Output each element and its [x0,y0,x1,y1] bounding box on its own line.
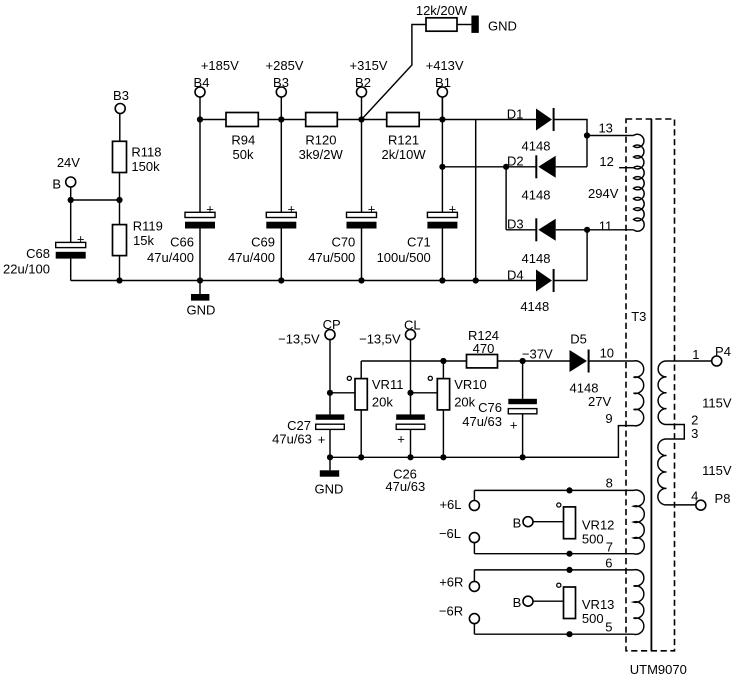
node B2 +315V [357,87,367,97]
wire D2 anode to pin13 branch [556,166,587,168]
svg-text:−13,5V: −13,5V [359,332,401,347]
svg-text:+: + [510,418,518,433]
svg-text:CL: CL [404,318,421,333]
svg-text:24V: 24V [57,155,80,170]
svg-text:UTM9070: UTM9070 [630,662,687,677]
node B VR13 [523,596,533,606]
svg-text:2k/10W: 2k/10W [382,147,427,162]
wire VR11 wiper [330,392,355,394]
svg-text:VR12: VR12 [582,518,615,533]
svg-text:+315V: +315V [350,58,388,73]
wire -13.5V rail to R124 [361,360,466,362]
svg-text:D5: D5 [570,332,587,347]
wire pin13 to winding [587,135,634,137]
ground GND middle [329,457,331,470]
wire R119 to bottom bus [119,256,121,281]
wire D1 cathode to pin13 node [554,120,587,136]
wire C66 column [199,120,201,213]
ground GND below C66 [199,281,201,295]
svg-text:8: 8 [606,476,613,491]
svg-text:−6L: −6L [439,526,461,541]
svg-text:6: 6 [605,556,612,571]
svg-text:R120: R120 [305,133,336,148]
wire pin11 node down to D4 [586,230,588,281]
node CP wiper junction [327,390,333,396]
svg-text:50k: 50k [233,147,254,162]
potentiometer VR12 [564,507,576,539]
node pin11 junction [584,227,590,233]
wire B to C68 [70,200,72,242]
winding R (pin6-5) [634,570,644,635]
wire D2 row from C71 column [442,166,536,168]
wire pin2-3 jog [667,425,685,440]
junction dots VR13 [566,567,572,573]
wire pin13 node down to D2 [586,136,588,167]
node CL wiper junction [407,390,413,396]
wire -6R to pin5 row [473,624,475,635]
svg-text:P4: P4 [715,344,731,359]
svg-text:GND: GND [187,303,216,318]
svg-text:B: B [513,595,522,610]
junction dots on top bus [197,116,203,122]
svg-text:1: 1 [692,347,699,362]
wire B to junction [70,187,72,200]
wire pin5 row [474,633,633,635]
wire pin9 exit to mid bus [523,426,634,458]
svg-text:7: 7 [606,540,613,555]
node +6L [469,501,479,511]
wire D5 to pin10 [589,360,634,362]
wire R118 to node [119,173,121,225]
transformer T3 dashed outline [626,119,675,651]
capacitor C66 [185,212,215,217]
winding 294V upper (pin13-12) [634,134,644,169]
wire VR13 wiper [533,600,564,602]
wire -37V to C76 [522,361,524,399]
svg-text:27V: 27V [588,394,611,409]
wire pin8 row [474,489,633,491]
svg-text:+413V: +413V [426,58,464,73]
svg-text:4148: 4148 [520,299,549,314]
svg-text:47u/63: 47u/63 [272,432,312,447]
resistor R119 [113,225,127,256]
wire bottom ground bus [71,280,536,282]
node P8 [696,500,706,510]
capacitor C27 [316,414,345,419]
capacitor C70 [347,212,377,217]
node B3 +285V [276,87,286,97]
svg-text:4148: 4148 [522,188,551,203]
wire +6L to pin8 row [473,490,475,500]
svg-text:47u/63: 47u/63 [385,479,425,494]
svg-text:150k: 150k [131,159,160,174]
winding 294V lower (pin12-11) [634,166,645,231]
wire CL to C26 [410,393,412,415]
wire 12k/20W left lead + diagonal to B2 node [362,25,427,120]
wire B3 to R118 [119,114,121,142]
node B VR12 [523,517,533,527]
svg-text:B: B [513,515,522,530]
svg-text:GND: GND [315,482,344,497]
wire C71 column [441,97,443,212]
svg-text:4148: 4148 [570,381,599,396]
wire VR12 wiper [533,521,564,523]
wire VR11 bottom [360,410,362,457]
node pin13 junction [584,132,590,138]
ground GND top-right [471,16,478,33]
junction dots middle bus [327,454,333,460]
wire R124 to -37V node [498,360,523,362]
svg-text:B1: B1 [435,75,451,90]
diode D1 [536,109,552,131]
diode D2 [538,156,555,178]
capacitor C71 [427,212,457,217]
diode D4 [536,270,552,292]
wire C27 to mid bus [329,429,331,457]
resistor R124 [467,355,498,368]
svg-text:115V: 115V [702,463,732,478]
resistor R94 [226,113,258,127]
svg-text:−6R: −6R [439,604,463,619]
svg-text:B4: B4 [194,75,210,90]
wire middle bus [330,456,618,458]
wire pin6 row [474,569,633,571]
node -37V junction [520,358,526,364]
svg-text:3: 3 [691,426,698,441]
svg-text:+6R: +6R [439,575,463,590]
svg-text:4148: 4148 [522,251,551,266]
svg-text:5: 5 [605,620,612,635]
transformer core [650,119,652,651]
svg-text:12k/20W: 12k/20W [416,3,468,18]
svg-text:10: 10 [600,346,614,361]
capacitor C26 [396,414,425,419]
wire pin1 to P4 [667,360,712,362]
capacitor C68 [56,242,86,247]
wire pin7 row [474,553,633,555]
winding 115V lower (pin3-4) [658,439,667,505]
wire D3 anode to pin11 node [556,229,587,231]
wire pin11 to winding [587,229,633,231]
wire VR10 bottom [442,410,444,457]
wire VR10 wiper [411,392,438,394]
wire D4 cathode to pin11 branch [554,280,588,282]
svg-text:+: + [368,202,376,217]
wire B2 to bus [361,97,363,120]
svg-text:500: 500 [582,532,604,547]
svg-text:3k9/2W: 3k9/2W [299,147,344,162]
svg-text:47u/400: 47u/400 [147,250,194,265]
svg-text:P8: P8 [715,491,731,506]
wire C68 to bottom bus [70,258,72,281]
wire -37V to D5 [523,360,570,362]
wire C70 column [361,120,363,213]
node -6R [469,614,479,624]
capacitor C69 [266,212,296,217]
svg-text:T3: T3 [631,309,646,324]
junction dot VR10 top [440,358,446,364]
svg-text:D3: D3 [507,217,524,232]
svg-text:100u/500: 100u/500 [377,250,431,265]
svg-text:20k: 20k [454,395,475,410]
svg-text:115V: 115V [702,396,732,411]
svg-text:22u/100: 22u/100 [3,261,50,276]
wire C69 column [280,120,282,213]
diode D3 [538,219,555,241]
svg-text:20k: 20k [372,395,393,410]
svg-text:47u/500: 47u/500 [308,250,355,265]
pin 12 tap stub [619,167,633,169]
svg-text:C66: C66 [170,235,194,250]
svg-text:+: + [397,432,405,447]
svg-text:B2: B2 [355,75,371,90]
node B 24V [66,177,76,187]
wire 12k/20W to GND [457,24,471,26]
wire VR11 top [360,361,362,379]
wire CP to C27 [329,393,331,415]
svg-text:4: 4 [691,489,698,504]
svg-text:+285V: +285V [266,58,304,73]
svg-text:+: + [206,202,214,217]
junction dots VR12 [566,487,572,493]
svg-text:+: + [77,232,85,247]
node P4 [712,356,722,366]
svg-text:B: B [52,177,61,192]
wire pin4 to P8 [667,504,696,506]
wire B4 to bus [199,97,201,120]
svg-text:C69: C69 [251,235,275,250]
svg-text:47u/63: 47u/63 [462,414,502,429]
svg-text:13: 13 [598,121,612,136]
diode D5 [570,350,588,372]
svg-text:500: 500 [582,611,604,626]
wire CL down to wiper node [410,340,412,393]
svg-text:B3: B3 [273,75,289,90]
wire -6L to pin7 row [473,543,475,554]
svg-text:C70: C70 [331,235,355,250]
svg-text:12: 12 [599,154,613,169]
svg-text:VR10: VR10 [454,377,487,392]
svg-text:+6L: +6L [439,497,461,512]
svg-text:470: 470 [473,341,495,356]
node CP -13,5V [325,330,335,340]
resistor R120 [306,113,338,127]
node +6R [469,581,479,591]
svg-text:15k: 15k [133,233,154,248]
wire +6R to pin6 row [473,570,475,582]
node -6L [469,533,479,543]
svg-text:GND: GND [488,19,517,34]
resistor R118 [113,141,127,172]
svg-text:VR13: VR13 [582,597,615,612]
potentiometer VR11 [355,379,367,410]
svg-text:+185V: +185V [201,58,239,73]
resistor 12k/20W [426,18,457,31]
svg-text:CP: CP [323,317,341,332]
svg-text:C71: C71 [407,235,431,250]
resistor R121 [387,113,420,127]
svg-text:C68: C68 [26,246,50,261]
wire CP down to wiper node [329,340,331,393]
svg-text:294V: 294V [588,186,619,201]
wire B3 to bus [280,97,282,120]
svg-text:R119: R119 [133,219,163,234]
wire C26 to mid bus [410,429,412,457]
svg-text:+: + [318,432,326,447]
wire B1 to bus [441,97,443,120]
winding L (pin8-7) [634,490,645,554]
wire D2/D3 link vertical [505,167,507,230]
potentiometer VR10 [437,379,449,410]
svg-text:B3: B3 [113,88,129,103]
svg-text:VR11: VR11 [372,377,404,392]
winding 115V upper (pin1-2) [658,361,666,425]
wire C76 to mid bus [522,414,524,458]
svg-text:C76: C76 [478,400,502,415]
svg-text:R118: R118 [131,145,161,160]
svg-text:+: + [288,202,296,217]
svg-text:D1: D1 [507,106,524,121]
capacitor C76 [508,399,537,404]
svg-text:R121: R121 [388,133,419,148]
wire D3 row left [506,229,536,231]
svg-text:R94: R94 [231,133,255,148]
node B4 +185V [195,87,205,97]
svg-text:4148: 4148 [522,139,551,154]
junction dots on bottom bus [116,277,122,283]
wire B node to R118/R119 node [71,199,120,201]
wire top HT bus [200,119,536,121]
svg-text:+: + [449,202,457,217]
svg-text:47u/400: 47u/400 [228,250,275,265]
svg-text:−13,5V: −13,5V [278,332,320,347]
potentiometer VR13 [564,587,576,619]
svg-text:D4: D4 [507,267,524,282]
svg-text:D2: D2 [507,154,524,169]
svg-text:11: 11 [599,218,613,233]
node CL -13,5V [406,330,416,340]
node B3 left [115,104,125,114]
svg-text:−37V: −37V [522,347,553,362]
winding 27V (pin10-9) [634,361,644,426]
wire VR10 top [442,361,444,379]
node B1 +413V [437,87,447,97]
wire D1/D4 anode vertical [475,120,477,281]
svg-text:9: 9 [605,411,612,426]
